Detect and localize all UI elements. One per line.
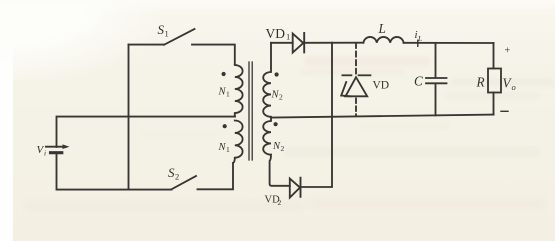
current arrow iL (417, 40, 419, 46)
svg-text:L: L (378, 21, 386, 36)
svg-text:S: S (158, 22, 165, 37)
diode VD2 (290, 178, 301, 198)
svg-text:1: 1 (226, 90, 230, 99)
wire: common vertical joining S1 and S2 left contacts (128, 45, 130, 190)
svg-text:1: 1 (226, 145, 230, 154)
polarity dot secondary bottom (274, 122, 278, 126)
transformer primary winding N1 top (235, 65, 243, 117)
wire: battery negative down and bottom rail to S2 (57, 153, 172, 190)
svg-text:S: S (168, 165, 175, 180)
label N1 top (218, 87, 231, 99)
transformer core (249, 62, 252, 160)
wire: output bottom rail (secondary center tap to load) (271, 115, 494, 118)
wire: top rail from secondary to VD1 (271, 42, 293, 44)
faint bleed-through ghost marks (305, 57, 430, 66)
label VD1 (266, 26, 291, 42)
svg-text:L: L (417, 34, 422, 43)
label N2 top (271, 90, 284, 102)
polarity dot primary bottom (223, 124, 227, 128)
label N2 bottom (272, 141, 285, 153)
wire: battery top to primary center tap (57, 117, 236, 147)
wire: inductor to load corner (404, 42, 494, 44)
svg-text:o: o (512, 82, 516, 92)
label S1 (158, 22, 169, 39)
transformer primary winding N1 bottom (233, 121, 243, 164)
transformer secondary winding N2 top (263, 43, 271, 118)
label Vo (503, 76, 516, 93)
svg-text:R: R (476, 74, 485, 89)
plus sign (505, 46, 511, 57)
svg-text:+: + (505, 46, 511, 57)
svg-text:C: C (414, 74, 423, 89)
transformer secondary winding N2 bottom (263, 118, 290, 186)
label VD2 (265, 195, 282, 208)
capacitor C (426, 43, 447, 115)
wire: S2 right lead up to primary bottom (198, 163, 234, 189)
wire: VD2 cathode to top rail junction (301, 43, 333, 187)
resistor R (488, 43, 501, 115)
minus sign (501, 110, 508, 112)
label R (476, 74, 485, 89)
label N1 bottom (218, 142, 231, 154)
svg-text:VD: VD (373, 80, 390, 92)
svg-text:2: 2 (279, 93, 283, 102)
diode VD1 (293, 33, 305, 53)
battery V1 (46, 144, 70, 152)
polarity dot secondary top (275, 72, 279, 76)
wire: S1 left lead (129, 44, 165, 46)
svg-text:1: 1 (286, 32, 290, 42)
wire: top rail VD1 to inductor (304, 42, 363, 44)
label L (378, 21, 386, 36)
label iL (415, 29, 423, 43)
svg-text:2: 2 (278, 198, 282, 207)
switch S2 blade (172, 176, 197, 189)
svg-text:i: i (44, 149, 46, 158)
svg-text:VD: VD (266, 26, 286, 41)
polarity dot primary top (222, 72, 226, 76)
freewheeling diode VD with dashed connections (341, 43, 370, 116)
wire: S1 right lead to primary top (192, 45, 235, 64)
svg-text:2: 2 (281, 144, 285, 153)
svg-text:1: 1 (165, 29, 169, 39)
label V1 (37, 144, 47, 158)
label VD (373, 80, 390, 92)
label C (414, 74, 423, 89)
svg-text:2: 2 (175, 172, 179, 182)
inductor L (363, 37, 403, 43)
label S2 (168, 165, 179, 182)
switch S1 blade (164, 29, 195, 45)
